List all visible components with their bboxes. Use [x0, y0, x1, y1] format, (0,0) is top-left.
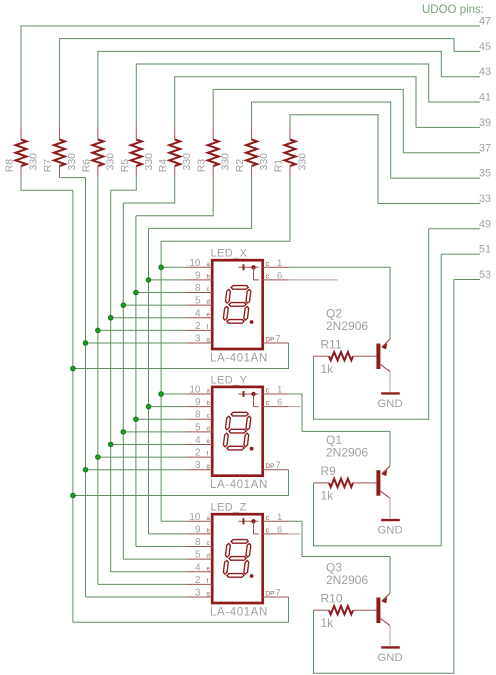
svg-text:7: 7 [275, 588, 280, 599]
wire segment column d [122, 203, 124, 559]
svg-text:53: 53 [479, 269, 491, 281]
svg-text:LA-401AN: LA-401AN [210, 606, 268, 618]
svg-text:2N2906: 2N2906 [326, 573, 368, 587]
wire dp link LED Y / junction [71, 470, 289, 498]
pin 10 (a) of LED_Y [187, 385, 212, 396]
svg-text:3: 3 [195, 334, 201, 345]
transistor Q3 label [326, 561, 368, 588]
decimal point mark of LED_Y [250, 447, 254, 451]
wire net 43 (R6 to pin 43) [98, 51, 441, 127]
wire R7 bottom to segment-g column [59, 175, 85, 178]
svg-text:LED_Z: LED_Z [211, 502, 247, 514]
wire pin net to R10 (base drive) [314, 280, 454, 674]
wire segment column e [110, 190, 112, 572]
pin 5 (d) of LED_Y [187, 422, 212, 433]
wire segment g row / junction [83, 467, 187, 472]
resistor R7 330 [42, 128, 78, 175]
wire segment column b [148, 228, 150, 534]
pin 2 (f) of LED_Y [187, 448, 212, 459]
pin 53 stub wire [454, 269, 491, 281]
wire segment g row LED Z [86, 596, 188, 598]
wire segment d row LED Z [123, 558, 187, 560]
svg-text:5: 5 [195, 422, 201, 433]
pin 45 stub wire [454, 41, 491, 53]
pin 5 (d) of LED_Z [187, 550, 212, 561]
svg-text:R8: R8 [4, 159, 16, 173]
pin 8 (c) of LED_Z [187, 537, 212, 548]
svg-text:6: 6 [277, 270, 282, 281]
transistor Q2 2N2906 (PNP) [376, 339, 390, 371]
svg-text:c: c [266, 259, 270, 268]
wire segment a row / junction [159, 392, 187, 397]
wire dp link LED Z [73, 597, 289, 622]
wire segment b row / junction [146, 404, 187, 409]
svg-text:8: 8 [195, 283, 201, 294]
svg-text:2N2906: 2N2906 [326, 446, 368, 460]
svg-text:5: 5 [195, 550, 201, 561]
wire R8 bottom to dp column [21, 175, 73, 191]
svg-text:LED_X: LED_X [211, 248, 248, 260]
svg-text:LA-401AN: LA-401AN [210, 352, 268, 364]
svg-text:35: 35 [479, 168, 491, 180]
svg-text:330: 330 [181, 153, 193, 171]
svg-text:R6: R6 [80, 159, 92, 173]
transistor Q3 2N2906 (PNP) [376, 593, 390, 625]
svg-text:9: 9 [195, 270, 201, 281]
svg-text:7: 7 [275, 460, 280, 471]
svg-text:R3: R3 [196, 159, 208, 173]
svg-text:R9: R9 [321, 464, 337, 478]
pin 47 label [479, 16, 491, 28]
LED display LED_Z label [211, 502, 247, 514]
LED_X value LA-401AN [210, 352, 268, 364]
pin 3 (g) of LED_X [187, 334, 212, 345]
svg-text:3: 3 [195, 588, 201, 599]
wire net 39 (R4 to pin 39) [175, 77, 416, 128]
svg-text:3: 3 [195, 460, 201, 471]
svg-text:c: c [207, 541, 210, 547]
wire segment d row / junction [121, 303, 187, 308]
wire segment f row LED Z [98, 583, 187, 585]
wire segment c row / junction [134, 417, 187, 422]
svg-text:9: 9 [195, 397, 201, 408]
internal common-pin mark of LED_Y [239, 391, 259, 407]
svg-text:37: 37 [479, 142, 491, 154]
pin 2 (f) of LED_X [187, 321, 212, 332]
resistor R2 330 [234, 128, 270, 175]
svg-text:4: 4 [195, 435, 201, 446]
wire segment b row LED Z [149, 533, 188, 535]
svg-text:DP: DP [265, 591, 274, 598]
svg-text:1: 1 [277, 385, 282, 396]
pin c 6 of LED_X [263, 270, 338, 281]
wire segment f row / junction [96, 328, 187, 333]
svg-text:R5: R5 [119, 159, 131, 173]
pin 39 stub wire [416, 117, 491, 129]
ground GND (Q2) [378, 393, 403, 409]
LED display U LED_X body [212, 260, 263, 349]
internal common-pin mark of LED_Z [239, 518, 259, 534]
svg-text:1k: 1k [321, 616, 335, 630]
pin Q1 collector lead to GND [389, 498, 391, 518]
pin 33 stub wire [378, 193, 491, 205]
net label UDOO pins header [422, 4, 484, 16]
svg-text:47: 47 [479, 16, 491, 28]
svg-text:DP: DP [265, 337, 274, 344]
wire segment d row / junction [121, 430, 187, 435]
svg-text:g: g [207, 592, 210, 598]
pin 41 stub wire [429, 92, 491, 104]
svg-text:330: 330 [143, 153, 155, 171]
pin 2 (f) of LED_Z [187, 575, 212, 586]
resistor R11 1k [321, 337, 354, 376]
wire segment e row / junction [108, 442, 187, 447]
svg-text:6: 6 [277, 524, 282, 535]
LED display LED_Y label [211, 374, 248, 386]
pin c 1 of LED_Y [263, 385, 289, 396]
pin 4 (e) of LED_Y [187, 435, 212, 446]
pin 4 (e) of LED_X [187, 308, 212, 319]
wire LED Z common to Q3 emitter [289, 521, 391, 593]
wire R6 bottom to segment-f column [97, 175, 99, 179]
wire pin net to R11 (base drive) [314, 229, 429, 419]
svg-text:c: c [207, 414, 210, 420]
svg-text:c: c [266, 386, 270, 395]
pin c 1 of LED_X [263, 258, 289, 269]
pin lead R10 to Q3 base [353, 609, 376, 611]
resistor R3 330 [196, 128, 232, 175]
seven-segment digit glyph of LED_Z [223, 540, 252, 578]
svg-text:4: 4 [195, 308, 201, 319]
pin c 6 of LED_Y [263, 397, 301, 408]
svg-text:GND: GND [378, 525, 403, 537]
svg-text:7: 7 [275, 334, 280, 345]
wire R4 bottom to segment-d column [123, 175, 174, 204]
wire R5 bottom to segment-e column [111, 175, 137, 191]
svg-text:51: 51 [479, 244, 491, 256]
svg-text:R10: R10 [321, 591, 343, 605]
svg-text:c: c [207, 287, 210, 293]
decimal point mark of LED_X [250, 320, 254, 324]
pin lead left of R11 [314, 355, 330, 357]
pin 9 (b) of LED_Y [187, 397, 212, 408]
pin 3 (g) of LED_Y [187, 460, 212, 471]
pin lead left of R9 [314, 482, 330, 484]
wire R3 bottom to segment-c column [136, 175, 213, 216]
LED display U LED_Y body [212, 387, 263, 476]
wire dp link LED X / junction [71, 343, 289, 371]
wire segment column dp [72, 190, 74, 622]
LED_Z value LA-401AN [210, 606, 268, 618]
pin 10 (a) of LED_X [187, 258, 212, 269]
pin 4 (e) of LED_Z [187, 562, 212, 573]
svg-text:8: 8 [195, 537, 201, 548]
wire R1 bottom to segment-a column [161, 175, 290, 242]
wire net 45 (R7 to pin 45) [59, 39, 454, 128]
wire segment g row / junction [83, 341, 187, 346]
svg-text:d: d [207, 426, 210, 432]
wire segment column c [135, 216, 137, 547]
pin DP 7 of LED_Z [263, 588, 289, 599]
resistor R1 330 [273, 128, 309, 175]
svg-text:R7: R7 [42, 159, 54, 173]
pin c 6 of LED_Z [263, 524, 301, 535]
svg-text:9: 9 [195, 524, 201, 535]
svg-text:330: 330 [66, 153, 78, 171]
pin 9 (b) of LED_Z [187, 524, 212, 535]
wire segment c row / junction [134, 290, 187, 295]
resistor R5 330 [119, 128, 155, 175]
pin 51 stub wire [441, 244, 491, 256]
svg-text:10: 10 [189, 512, 201, 523]
pin 5 (d) of LED_X [187, 296, 212, 307]
wire segment e row / junction [108, 315, 187, 320]
transistor Q1 label [326, 433, 368, 460]
pin DP 7 of LED_Y [263, 460, 289, 471]
wire net 47 (R8 to pin 47) [21, 26, 480, 128]
wire R2 bottom to segment-b column [149, 175, 252, 229]
wire segment c row LED Z [136, 546, 187, 548]
svg-text:GND: GND [378, 652, 403, 664]
svg-text:R1: R1 [273, 159, 285, 173]
svg-text:R11: R11 [321, 337, 342, 351]
svg-text:GND: GND [378, 398, 403, 410]
svg-text:5: 5 [195, 296, 201, 307]
svg-text:LA-401AN: LA-401AN [210, 479, 268, 491]
svg-text:c: c [266, 398, 270, 407]
pin Q3 collector lead to GND [389, 626, 391, 646]
pin 9 (b) of LED_X [187, 270, 212, 281]
pin Q2 collector lead to GND [389, 372, 391, 392]
pin 37 stub wire [403, 142, 491, 154]
svg-text:R2: R2 [234, 159, 246, 173]
svg-text:330: 330 [297, 153, 309, 171]
svg-text:4: 4 [195, 562, 201, 573]
seven-segment digit glyph of LED_Y [223, 412, 252, 450]
pin lead left of R10 [314, 609, 330, 611]
svg-text:8: 8 [195, 410, 201, 421]
svg-text:c: c [266, 525, 270, 534]
wire segment a row / junction [159, 265, 187, 270]
wire net 41 (R5 to pin 41) [136, 64, 428, 127]
wire segment e row LED Z [111, 571, 187, 573]
pin 8 (c) of LED_X [187, 283, 212, 294]
svg-text:UDOO pins:: UDOO pins: [422, 4, 484, 16]
transistor Q1 2N2906 (PNP) [376, 466, 390, 498]
svg-text:c: c [266, 271, 270, 280]
wire segment column a [160, 241, 162, 521]
svg-text:49: 49 [479, 218, 491, 230]
svg-text:43: 43 [479, 66, 491, 78]
pin 49 stub wire [429, 218, 491, 230]
svg-text:g: g [207, 338, 210, 344]
internal common-pin mark of LED_X [239, 264, 259, 280]
svg-text:39: 39 [479, 117, 491, 129]
svg-text:d: d [207, 554, 210, 560]
svg-text:41: 41 [479, 92, 491, 104]
wire net 37 (R3 to pin 37) [213, 89, 403, 152]
wire net 33 (R1 to pin 33) [290, 115, 378, 204]
transistor Q2 label [326, 307, 368, 334]
pin lead R9 to Q1 base [353, 482, 376, 484]
wire LED Y common to Q1 emitter [289, 394, 391, 466]
wire pin net to R9 (base drive) [314, 254, 442, 546]
ground GND (Q1) [378, 520, 403, 536]
pin 43 stub wire [441, 66, 491, 78]
wire LED X common to Q2 emitter [289, 267, 391, 339]
seven-segment digit glyph of LED_X [223, 286, 252, 324]
LED_Y value LA-401AN [210, 479, 268, 491]
svg-text:1: 1 [277, 258, 282, 269]
resistor R10 1k [321, 591, 354, 630]
ground GND (Q3) [378, 647, 403, 663]
svg-text:R4: R4 [157, 159, 169, 173]
wire segment a row LED Z [161, 520, 187, 522]
svg-text:c: c [266, 513, 270, 522]
svg-text:330: 330 [258, 153, 270, 171]
pin c 1 of LED_Z [263, 512, 289, 523]
svg-text:330: 330 [28, 153, 40, 171]
svg-text:1k: 1k [321, 362, 335, 376]
pin 10 (a) of LED_Z [187, 512, 212, 523]
svg-text:2N2906: 2N2906 [326, 319, 368, 333]
wire segment column f [97, 178, 99, 584]
resistor R4 330 [157, 128, 193, 175]
svg-text:33: 33 [479, 193, 491, 205]
svg-text:2: 2 [195, 321, 201, 332]
svg-text:45: 45 [479, 41, 491, 53]
wire segment b row / junction [146, 278, 187, 283]
svg-text:330: 330 [104, 153, 116, 171]
svg-text:2: 2 [195, 575, 201, 586]
svg-text:10: 10 [189, 258, 201, 269]
pin 3 (g) of LED_Z [187, 588, 212, 599]
resistor R6 330 [80, 128, 116, 175]
pin 35 stub wire [391, 168, 491, 180]
LED display U LED_Z body [212, 514, 263, 603]
wire segment column g [85, 178, 87, 597]
svg-text:g: g [207, 464, 210, 470]
LED display LED_X label [211, 248, 248, 260]
resistor R9 1k [321, 464, 354, 503]
pin DP 7 of LED_X [263, 334, 289, 345]
decimal point mark of LED_Z [250, 574, 254, 578]
pin lead R11 to Q2 base [353, 355, 376, 357]
wire segment f row / junction [96, 455, 187, 460]
svg-text:1: 1 [277, 512, 282, 523]
svg-text:330: 330 [220, 153, 232, 171]
resistor R8 330 [4, 128, 40, 175]
svg-text:2: 2 [195, 448, 201, 459]
svg-text:1k: 1k [321, 489, 335, 503]
svg-text:10: 10 [189, 385, 201, 396]
pin 8 (c) of LED_Y [187, 410, 212, 421]
wire net 35 (R2 to pin 35) [252, 102, 391, 178]
svg-text:DP: DP [265, 463, 274, 470]
svg-text:6: 6 [277, 397, 282, 408]
svg-text:LED_Y: LED_Y [211, 374, 248, 386]
svg-text:d: d [207, 300, 210, 306]
